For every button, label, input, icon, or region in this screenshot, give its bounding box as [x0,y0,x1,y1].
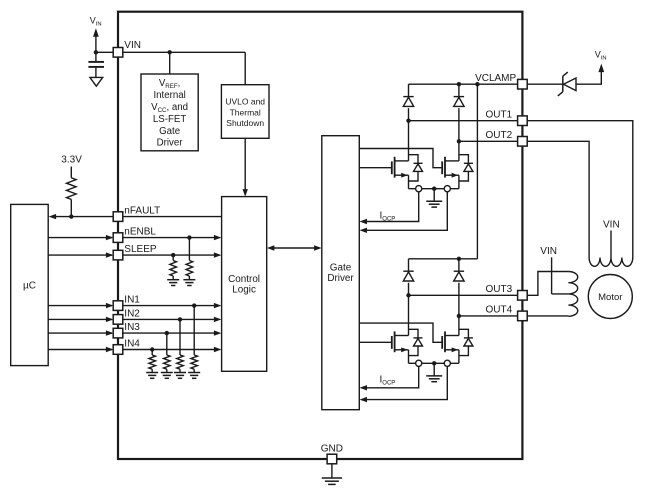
sense element bridge 1 left [416,186,422,192]
zener diode D9 [562,76,564,92]
pin OUT4 [518,311,528,321]
svg-text:OUT2: OUT2 [486,130,513,141]
pin VIN [113,48,123,58]
svg-text:IN2: IN2 [124,308,140,319]
wire to regulator block [169,52,171,74]
junction IN3 pull-down [165,331,169,335]
svg-text:Motor: Motor [598,292,622,303]
wire VIN internal rail [123,51,245,53]
pin IN4 [113,345,123,355]
pin OUT2 [518,137,528,147]
wire IN3 to control logic [123,332,215,334]
wire IOCP sense 2 to gate driver [366,192,447,231]
block U4 microcontroller [11,204,49,365]
diode D2 clamp [458,84,460,96]
sense element bridge 1 right [444,186,450,192]
wire VCLAMP rail to bridge 2 rail [476,84,478,259]
ground IN3 pull-down [161,372,173,374]
svg-text:UVLO and: UVLO and [225,97,265,107]
pin SLEEP [113,250,123,260]
wire gate driver to Q3 gate [359,341,392,343]
ground R2 [183,279,195,281]
wire VIN tap A [551,257,553,294]
wire OUT1 internal [409,120,518,122]
wire OUT3 external [527,272,568,296]
wire nENBL from microcontroller [48,237,112,239]
ground bridge 2 [433,363,435,376]
resistor IN4 pull-down [151,350,153,356]
transistor Q1 [392,121,423,189]
wire UVLO to control logic [244,138,246,189]
wire sense line bridge 2 [409,362,459,364]
svg-text:VCC, and: VCC, and [151,102,188,114]
wire OUT2 internal [459,140,518,142]
junction IN4 pull-down [150,347,154,351]
wire nENBL to control logic [123,237,215,239]
svg-text:nFAULT: nFAULT [124,205,160,216]
ground chassis (triangle) [90,77,103,86]
VIN supply arrow [95,37,97,53]
svg-text:nENBL: nENBL [124,227,156,238]
svg-text:Driver: Driver [157,138,184,149]
diode D1 clamp [408,84,410,96]
junction OUT2 [457,139,461,143]
wire zener to VIN [576,70,601,84]
wire VIN supply to VIN pin [96,51,113,53]
svg-text:OUT3: OUT3 [486,284,513,295]
svg-text:LS-FET: LS-FET [153,114,186,125]
svg-text:VIN: VIN [124,40,141,51]
wire OUT2 external [527,141,589,257]
wire OUT4 internal [459,315,518,317]
block U5 control logic [222,197,267,372]
svg-text:Gate: Gate [159,126,180,137]
wire sense line bridge 1 [409,188,459,190]
svg-text:Shutdown: Shutdown [226,118,264,128]
transistor Q2 [442,141,473,188]
wire IN4 to control logic [123,349,215,351]
transistor Q4 [442,316,473,363]
junction bridge 2 rail D4 [457,257,461,261]
pin VCLAMP [518,79,528,89]
svg-text:IN1: IN1 [124,295,140,306]
pin IN3 [113,328,123,338]
junction sense bridge 2 [432,361,436,365]
svg-text:3.3V: 3.3V [61,154,82,165]
wire IN2 from microcontroller [48,318,112,320]
svg-text:OUT1: OUT1 [486,109,513,120]
wire VIN rail to UVLO [244,52,246,84]
wire IN1 from microcontroller [48,305,112,307]
inductor winding B (OUT1-OUT2) [589,258,633,267]
junction OUT4 [457,314,461,318]
wire IN2 to control logic [123,318,215,320]
wire SLEEP to control logic [123,254,215,256]
diode D3 clamp [408,259,410,271]
junction OUT1 [406,119,410,123]
junction VCLAMP rail D2 [457,82,461,86]
resistor IN3 pull-down [166,333,168,355]
pin nENBL [113,233,123,243]
resistor IN1 pull-down [193,306,195,355]
transistor Q3 [392,295,423,363]
svg-text:OUT4: OUT4 [486,305,513,316]
junction sense bridge 1 [432,187,436,191]
junction IN2 pull-down [178,317,182,321]
resistor R3 SLEEP pull-down [172,255,174,260]
wire gate driver to Q2 gate [359,149,442,168]
pin GND [327,454,337,464]
wire OUT1 external [527,121,633,258]
wire OUT3 internal [409,294,518,296]
svg-text:Control: Control [228,274,260,285]
junction R1 to nFAULT [69,214,73,218]
pin IN2 [113,315,123,325]
pin nFAULT [113,212,123,222]
svg-text:VIN: VIN [603,219,620,230]
pin IN1 [113,301,123,311]
diode D4 clamp [458,259,460,271]
junction VIN rail to regulator [168,50,172,54]
motor M1 [588,275,632,319]
inductor winding A (OUT3-OUT4) [568,272,577,317]
ground GND pin [331,464,333,478]
wire IOCP sense 4 to gate driver [366,366,447,399]
svg-text:IN4: IN4 [124,339,140,350]
svg-text:Gate: Gate [330,262,352,273]
sense element bridge 2 right [444,360,450,366]
svg-text:GND: GND [321,444,343,455]
ground bridge 1 [433,189,435,202]
wire VIN tap B [610,231,612,258]
junction IN1 pull-down [192,303,196,307]
wire control logic to gate driver (bidirectional) [273,247,315,249]
svg-text:IN3: IN3 [124,322,140,333]
block U3 UVLO and thermal shutdown [221,85,269,139]
junction SLEEP pull-down [171,253,175,257]
wire VCLAMP rail [409,83,518,85]
svg-text:Internal: Internal [153,90,185,101]
junction nENBL pull-down [187,235,191,239]
wire gate driver to Q4 gate [359,323,442,342]
junction VCLAMP rail to bridge 2 [475,82,479,86]
svg-text:µC: µC [23,280,36,291]
ground IN4 pull-down [146,372,158,374]
junction VIN supply [94,50,98,54]
svg-text:Driver: Driver [327,273,354,284]
capacitor C1 bulk [95,52,97,61]
block U6 gate driver [322,136,360,410]
sense element bridge 2 left [416,360,422,366]
wire SLEEP from microcontroller [48,254,112,256]
wire IN4 from microcontroller [48,349,112,351]
junction OUT3 [406,293,410,297]
resistor IN2 pull-down [179,319,181,355]
wire nFAULT from control logic [123,216,222,218]
svg-text:VIN: VIN [540,246,557,257]
wire gate driver to Q1 gate [359,167,392,169]
pin OUT1 [518,116,528,126]
svg-text:Logic: Logic [232,285,256,296]
ground IN1 pull-down [188,372,200,374]
svg-text:VCLAMP: VCLAMP [475,73,516,84]
resistor R1 pull-up 3.3V [70,167,72,178]
wire IOCP sense 3 to gate driver [366,366,419,387]
wire nFAULT to microcontroller [55,216,113,218]
svg-text:Thermal: Thermal [230,107,261,117]
wire IOCP sense 1 to gate driver [366,192,419,222]
wire OUT4 external [527,315,568,317]
block U2 internal regulator [141,74,198,151]
wire tap A to coil [552,293,569,295]
wire IN1 to control logic [123,305,215,307]
pin OUT3 [518,291,528,301]
wire IN3 from microcontroller [48,332,112,334]
ground R3 [167,279,179,281]
svg-text:SLEEP: SLEEP [124,244,157,255]
wire bridge 2 rail [409,258,478,260]
wire VCLAMP to zener [527,83,563,85]
device boundary box [118,12,522,459]
ground IN2 pull-down [174,372,186,374]
resistor R2 nENBL pull-down [188,238,190,261]
